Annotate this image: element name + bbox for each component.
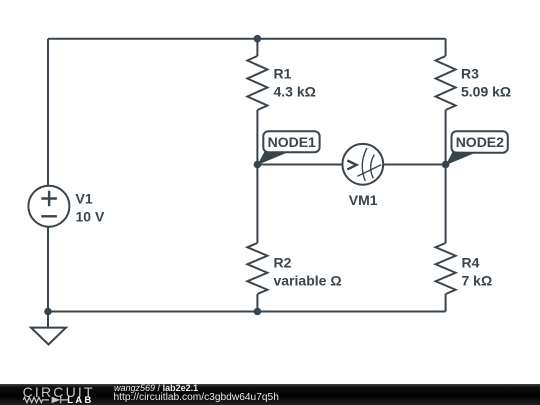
svg-text:NODE2: NODE2 — [456, 134, 504, 150]
svg-text:R3: R3 — [461, 66, 479, 82]
svg-text:4.3 kΩ: 4.3 kΩ — [274, 84, 316, 100]
svg-text:NODE1: NODE1 — [268, 134, 316, 150]
svg-text:R1: R1 — [274, 66, 292, 82]
svg-text:R4: R4 — [462, 255, 480, 271]
svg-text:7 kΩ: 7 kΩ — [462, 273, 493, 289]
svg-text:R2: R2 — [274, 255, 292, 271]
svg-text:variable Ω: variable Ω — [274, 273, 342, 289]
svg-text:5.09 kΩ: 5.09 kΩ — [461, 84, 511, 100]
svg-text:VM1: VM1 — [349, 192, 378, 208]
